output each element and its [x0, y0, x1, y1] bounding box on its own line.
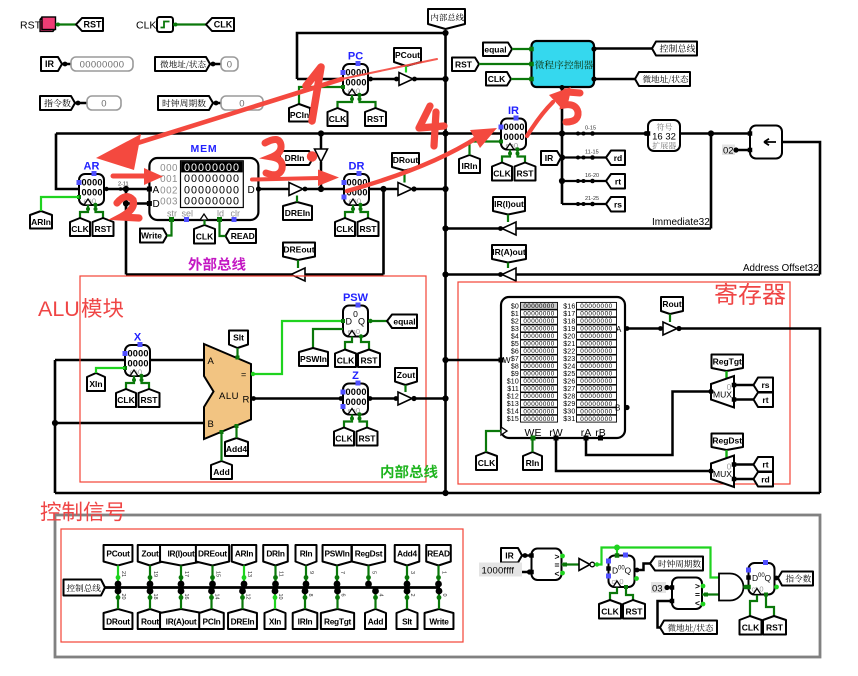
svg-text:DRIn: DRIn — [266, 548, 285, 558]
svg-text:$20: $20 — [563, 333, 575, 340]
svg-text:$1: $1 — [511, 311, 519, 318]
svg-text:$13: $13 — [507, 401, 519, 408]
wire PC en from PCIn — [299, 87, 343, 104]
wire IR out — [526, 132, 646, 135]
svg-text:MUX: MUX — [713, 390, 732, 400]
svg-text:Write: Write — [141, 231, 162, 241]
wire stub bit 2 — [406, 591, 408, 609]
svg-text:00000000: 00000000 — [523, 356, 554, 363]
wire DREIn enable — [296, 196, 298, 203]
counter2 CLK/RST — [750, 595, 757, 616]
tunnel IR(A)out (panel bottom) — [160, 609, 202, 629]
tunnel PCout — [394, 48, 421, 66]
svg-text:$27: $27 — [563, 386, 575, 393]
svg-text:CLK: CLK — [488, 74, 506, 84]
svg-text:21-25: 21-25 — [585, 196, 599, 202]
tunnel RegTgt (panel bottom) — [321, 609, 354, 629]
tunnel IR (to splitter) — [541, 151, 561, 165]
label 寄存器 — [715, 283, 785, 305]
svg-text:00000000: 00000000 — [580, 318, 612, 325]
svg-text:rt: rt — [762, 459, 768, 469]
tunnel RST (ctrl) — [452, 58, 479, 72]
register file box — [501, 297, 625, 438]
wire MEM D out — [259, 188, 290, 191]
frame ALU模块 — [80, 276, 426, 482]
svg-text:DREIn: DREIn — [285, 208, 311, 218]
svg-text:00000000: 00000000 — [523, 371, 554, 378]
node bus addr — [442, 271, 448, 277]
wire AddressOffset32 — [446, 273, 821, 276]
svg-text:10: 10 — [277, 594, 283, 600]
svg-text:00000000: 00000000 — [580, 326, 612, 333]
svg-text:1: 1 — [441, 571, 447, 574]
flipflop PSW — [343, 306, 368, 337]
svg-text:CLK: CLK — [196, 231, 214, 241]
tunnel READ (panel top) — [426, 545, 451, 566]
tunnel 微地址/状态 — [155, 57, 210, 71]
svg-text:00000000: 00000000 — [523, 401, 554, 408]
tunnel CLK (counter1) — [599, 600, 621, 619]
node PC bus junction — [442, 76, 448, 82]
svg-text:$7: $7 — [511, 356, 519, 363]
buffer PCout (controlled) — [399, 73, 413, 86]
wire A to right bus — [677, 329, 820, 494]
svg-text:CLK: CLK — [336, 224, 354, 234]
svg-text:CLK: CLK — [335, 434, 353, 444]
tunnel 指令数 (out) — [778, 572, 813, 586]
svg-text:Add: Add — [213, 467, 230, 477]
wire A out — [625, 327, 663, 330]
svg-text:00000000: 00000000 — [580, 378, 612, 385]
svg-text:00000000: 00000000 — [580, 363, 612, 370]
tunnel XIn (panel bottom) — [265, 609, 286, 629]
svg-text:0: 0 — [441, 594, 447, 597]
shifter (shift left 2) — [750, 126, 782, 159]
wire Slt to ALU — [236, 348, 238, 359]
wire Add4 to ALU — [235, 426, 237, 439]
tunnel 时钟周期数 (out) — [650, 557, 703, 571]
wire stub bit 17 — [180, 566, 182, 585]
wire Write to str — [167, 220, 172, 236]
tunnel 指令数 — [40, 96, 75, 110]
tunnel Zout (panel top) — [138, 545, 163, 566]
wire CLK to regfile — [486, 431, 501, 452]
svg-text:00000000: 00000000 — [580, 303, 612, 310]
wire IR(A)out enable — [507, 263, 509, 269]
wire ALU R out — [251, 397, 343, 400]
svg-text:IR(A)out: IR(A)out — [492, 247, 526, 257]
tunnel PSWIn — [299, 348, 328, 366]
svg-text:CLK: CLK — [329, 114, 347, 124]
svg-text:$26: $26 — [563, 379, 575, 386]
svg-text:00000000: 00000000 — [580, 333, 612, 340]
svg-text:$11: $11 — [507, 386, 519, 393]
svg-text:$9: $9 — [511, 371, 519, 378]
svg-text:00000000: 00000000 — [184, 196, 240, 208]
wire stub bit 1 — [437, 566, 439, 585]
svg-text:IRIn: IRIn — [461, 161, 477, 171]
svg-text:PSW: PSW — [343, 292, 369, 304]
svg-text:7: 7 — [339, 571, 345, 574]
wire Immediate32 — [446, 227, 712, 230]
svg-text:IR: IR — [505, 550, 514, 560]
wire stub bit 9 — [305, 566, 307, 585]
svg-text:DREout: DREout — [283, 245, 314, 255]
svg-text:DRout: DRout — [106, 616, 130, 626]
svg-text:RST: RST — [20, 20, 42, 32]
node lime junction — [614, 545, 620, 551]
tunnel RegDst — [712, 434, 744, 451]
wire control bus — [105, 586, 440, 589]
tunnel PCIn (panel bottom) — [199, 609, 224, 629]
wire stub bit 18 — [149, 591, 151, 609]
wire stub bit 12 — [241, 591, 243, 609]
tunnel DRout (panel bottom) — [104, 609, 133, 629]
wire 03 to cmp2 — [667, 586, 672, 589]
buffer IR(I)out (left) — [502, 222, 516, 235]
svg-text:5: 5 — [371, 571, 377, 574]
svg-text:00000000: 00000000 — [184, 173, 240, 185]
memory MEM — [149, 158, 258, 220]
splitter 0-15 marks — [576, 132, 580, 136]
register AR — [79, 174, 104, 205]
svg-text:00000000: 00000000 — [523, 393, 554, 400]
wire vertical x383 to ext bus — [382, 189, 385, 275]
svg-text:16: 16 — [183, 594, 189, 600]
svg-text:00000000: 00000000 — [523, 363, 554, 370]
svg-text:$28: $28 — [563, 394, 575, 401]
wire control box to IR bus — [561, 87, 564, 204]
tunnel CLK (MEM) — [194, 225, 215, 244]
wire READ to ld — [220, 220, 226, 236]
svg-text:<: < — [695, 598, 700, 608]
label 外部总线 — [188, 257, 245, 271]
wire PC feedback top — [297, 33, 446, 79]
svg-text:ARIn: ARIn — [31, 217, 51, 227]
svg-text:00000000: 00000000 — [523, 326, 554, 333]
tunnel rt (mux2) — [754, 457, 774, 472]
svg-text:CLK: CLK — [493, 169, 511, 179]
register Z — [343, 384, 368, 415]
svg-text:Z: Z — [352, 370, 359, 382]
svg-text:00000000: 00000000 — [580, 311, 612, 318]
node immediate drop — [708, 130, 714, 136]
svg-text:00000000: 00000000 — [580, 401, 612, 408]
wire Add to ALU — [220, 432, 222, 462]
tunnel RST (PSW) — [358, 350, 380, 368]
svg-text:$31: $31 — [563, 416, 575, 423]
svg-text:$24: $24 — [563, 364, 575, 371]
svg-text:rt: rt — [615, 176, 621, 186]
svg-text:rs: rs — [614, 199, 622, 209]
svg-text:CLK: CLK — [337, 355, 355, 365]
svg-text:19: 19 — [152, 571, 158, 577]
wire 外部总线 — [126, 273, 384, 276]
frame gray panel — [55, 515, 820, 657]
svg-text:D: D — [153, 199, 160, 210]
annotation numeral 2 — [117, 197, 139, 218]
svg-text:Add4: Add4 — [226, 444, 248, 454]
wire stub bit 3 — [406, 566, 408, 585]
svg-text:RST: RST — [361, 355, 379, 365]
svg-text:MUX: MUX — [713, 469, 732, 479]
svg-text:$10: $10 — [507, 379, 519, 386]
splitter branch rd — [562, 156, 607, 158]
svg-text:RegDst: RegDst — [712, 435, 742, 445]
svg-text:0000: 0000 — [82, 178, 103, 188]
tunnel RegTgt — [712, 355, 744, 372]
svg-text:rd: rd — [761, 474, 770, 484]
wire stub bit 14 — [210, 591, 212, 609]
tunnel PCout (panel top) — [104, 545, 133, 566]
svg-text:Q: Q — [358, 317, 365, 327]
tunnel RegDst (panel top) — [352, 545, 385, 566]
svg-text:6: 6 — [340, 594, 346, 597]
svg-text:RST: RST — [141, 395, 159, 405]
tunnel DRout — [392, 153, 419, 171]
wire DREout enable — [297, 260, 299, 268]
tunnel RST — [76, 18, 103, 31]
wire shifter out — [782, 142, 820, 275]
tunnel 时钟周期数 — [158, 96, 213, 110]
tunnel DRIn — [280, 151, 313, 165]
svg-text:20: 20 — [120, 594, 126, 600]
svg-text:IR: IR — [545, 153, 554, 163]
wire sign ext out — [680, 132, 750, 135]
buffer Zout — [398, 392, 412, 405]
probe 指令数 value — [87, 96, 121, 110]
wire B line — [55, 422, 204, 425]
svg-text:equal: equal — [484, 44, 506, 54]
node bus Z — [442, 395, 448, 401]
wire PC out — [368, 78, 399, 81]
counter 时钟周期数 — [609, 556, 635, 588]
svg-text:2: 2 — [409, 594, 415, 597]
svg-text:00000000: 00000000 — [580, 416, 612, 423]
svg-text:001: 001 — [160, 174, 178, 185]
svg-text:IR: IR — [508, 105, 519, 117]
wire top bus y=133.5 — [56, 132, 501, 135]
wire RegDst select — [725, 450, 727, 461]
tunnel 微地址/状态 (top) — [635, 72, 690, 86]
wire RegTgt select — [725, 371, 727, 381]
svg-text:00000000: 00000000 — [580, 408, 612, 415]
tunnel CLK (regfile) — [476, 452, 497, 470]
svg-text:14: 14 — [214, 594, 220, 600]
tunnel Zout — [395, 368, 417, 385]
annotation numeral 4 — [419, 106, 444, 146]
wire IRIn to IR en — [470, 142, 502, 156]
frame 控制信号 red — [61, 529, 463, 642]
wire left AR feed — [56, 134, 79, 190]
wire main vertical bus — [444, 33, 447, 493]
tunnel CLK — [206, 18, 234, 31]
tunnel Add (panel bottom) — [365, 609, 386, 629]
buffer DRout — [398, 183, 412, 196]
register X — [125, 345, 150, 376]
svg-text:Rout: Rout — [662, 299, 682, 309]
probe 微地址 value — [221, 57, 238, 71]
register DR — [344, 174, 369, 205]
tunnel Write (panel bottom) — [425, 609, 454, 629]
wire IR(I)out enable — [507, 215, 509, 223]
svg-text:CLK: CLK — [136, 20, 156, 32]
node MEM D in — [123, 200, 129, 206]
svg-text:00000000: 00000000 — [580, 371, 612, 378]
svg-text:RIn: RIn — [526, 458, 540, 468]
node bus top cross — [442, 130, 448, 136]
svg-text:CLK: CLK — [71, 224, 89, 234]
tunnel RIn (panel top) — [296, 545, 317, 566]
wire vertical x126 — [125, 189, 128, 275]
node 内部总线 junction — [442, 30, 448, 36]
wire NOT out (lime) — [595, 548, 720, 578]
svg-text:B: B — [208, 419, 214, 430]
svg-text:$3: $3 — [511, 326, 519, 333]
svg-text:CLK: CLK — [601, 606, 619, 616]
wire RST to box — [479, 63, 532, 65]
svg-text:Rout: Rout — [141, 616, 159, 626]
svg-text:CLK: CLK — [117, 395, 135, 405]
wire stub bit 4 — [374, 591, 376, 609]
counter 指令数 — [749, 563, 775, 595]
svg-text:21: 21 — [120, 571, 126, 577]
wire PSWIn to en — [313, 329, 343, 348]
wire ALU = to PSW D (lime) — [251, 321, 343, 374]
tunnel PSWIn (panel top) — [323, 545, 352, 566]
label 内部总线 — [381, 465, 437, 479]
svg-text:READ: READ — [231, 231, 255, 241]
node bus bottom — [442, 490, 448, 496]
splitter 2-11 marks — [119, 187, 123, 191]
probe 时钟周期数 value — [221, 96, 263, 110]
svg-text:002: 002 — [160, 185, 178, 196]
svg-text:XIn: XIn — [89, 379, 102, 389]
svg-text:PSWIn: PSWIn — [324, 548, 349, 558]
tunnel Add4 (panel top) — [395, 545, 420, 566]
svg-text:00000000: 00000000 — [580, 386, 612, 393]
wire cmp = to NOT — [562, 563, 580, 565]
wire left lower vertical — [54, 360, 57, 493]
svg-text:13: 13 — [246, 571, 252, 577]
tunnel READ — [226, 229, 257, 243]
wire 微地址 to cmp2 — [658, 601, 673, 628]
wire stub bit 6 — [336, 591, 338, 609]
wire counter1 Q out — [635, 564, 651, 571]
tunnel ARIn (panel top) — [232, 545, 257, 566]
svg-text:Slt: Slt — [233, 333, 244, 343]
tunnel Add4 — [225, 438, 248, 456]
wire ctrl out to 控制总线 — [594, 47, 652, 50]
AND gate — [719, 573, 744, 600]
svg-text:CLK: CLK — [742, 622, 760, 632]
wire X/A line — [55, 359, 125, 362]
wire PC in — [297, 78, 343, 81]
wire stub bit 16 — [180, 591, 182, 609]
wire regfile W input — [446, 359, 502, 362]
wire Z buffer to bus — [412, 397, 446, 400]
svg-text:17: 17 — [183, 571, 189, 577]
wire MEM D in — [126, 202, 149, 205]
svg-text:$15: $15 — [507, 416, 519, 423]
comparator 1 — [532, 549, 562, 581]
svg-text:0000: 0000 — [128, 349, 149, 359]
svg-text:<: < — [555, 569, 560, 579]
svg-text:IR(I)out: IR(I)out — [494, 199, 524, 209]
tunnel 微地址/状态 (cmp2) — [660, 621, 717, 635]
svg-text:RST: RST — [517, 169, 535, 179]
svg-text:0: 0 — [227, 59, 233, 70]
register PC — [343, 64, 368, 95]
counter1 CLK/RST — [610, 588, 617, 601]
annotation arrow 5 — [527, 102, 553, 136]
ALU body — [204, 344, 251, 439]
wire PSW Q to equal — [368, 320, 388, 322]
svg-text:Address Offset32: Address Offset32 — [743, 263, 819, 274]
subcircuit 微程序控制器 — [532, 41, 595, 87]
tunnel IR(I)out — [493, 197, 525, 215]
wire mux2 in rt — [734, 463, 754, 466]
svg-text:DRIn: DRIn — [285, 153, 305, 163]
tunnel rt — [606, 174, 625, 189]
wire lime to counter1 — [616, 548, 618, 556]
wire CLK to mem clock — [203, 220, 205, 225]
svg-text:11-15: 11-15 — [585, 150, 599, 156]
svg-text:00000000: 00000000 — [580, 341, 612, 348]
svg-text:$19: $19 — [563, 326, 575, 333]
svg-text:00000000: 00000000 — [523, 348, 554, 355]
buffer IR(A)out (left) — [502, 268, 516, 281]
svg-text:X: X — [134, 332, 142, 344]
tunnel rd — [606, 151, 625, 166]
svg-text:Write: Write — [429, 616, 449, 626]
svg-text:18: 18 — [152, 594, 158, 600]
node bus imm — [442, 225, 448, 231]
annotation arrow 1 — [128, 79, 342, 146]
svg-text:Q: Q — [625, 566, 632, 576]
frame 寄存器 — [458, 282, 790, 484]
tunnel 控制总线 (panel) — [64, 580, 106, 596]
svg-text:$5: $5 — [511, 341, 519, 348]
svg-text:00000000: 00000000 — [523, 341, 554, 348]
wire counter2 Q out — [775, 577, 780, 580]
svg-text:RST: RST — [626, 606, 644, 616]
svg-text:DREIn: DREIn — [231, 616, 255, 626]
svg-text:Zout: Zout — [142, 548, 159, 558]
svg-text:0: 0 — [101, 98, 107, 109]
wire ctrl out to 微地址/状态 — [594, 78, 635, 81]
tunnel rs — [606, 197, 625, 212]
wire CLK to box — [511, 78, 532, 80]
node bus W — [442, 357, 448, 363]
tunnel IR (cmp) — [501, 548, 522, 563]
tunnel rs (mux) — [754, 378, 774, 393]
wire PCout enable — [405, 66, 407, 73]
register IR — [501, 119, 526, 150]
svg-text:AR: AR — [84, 161, 100, 173]
wire ARIn to AR en (lime) — [41, 197, 79, 211]
wire stub bit 11 — [274, 566, 276, 585]
annotation numeral 1 — [306, 67, 321, 121]
wire AR out to MEM A — [104, 188, 149, 191]
wire Zout enable — [404, 385, 406, 392]
svg-text:ARIn: ARIn — [235, 548, 254, 558]
node B junction — [52, 420, 58, 426]
svg-text:RST: RST — [455, 59, 473, 69]
svg-text:4: 4 — [378, 594, 384, 597]
svg-text:00000000: 00000000 — [523, 386, 554, 393]
svg-text:DR: DR — [349, 161, 365, 173]
